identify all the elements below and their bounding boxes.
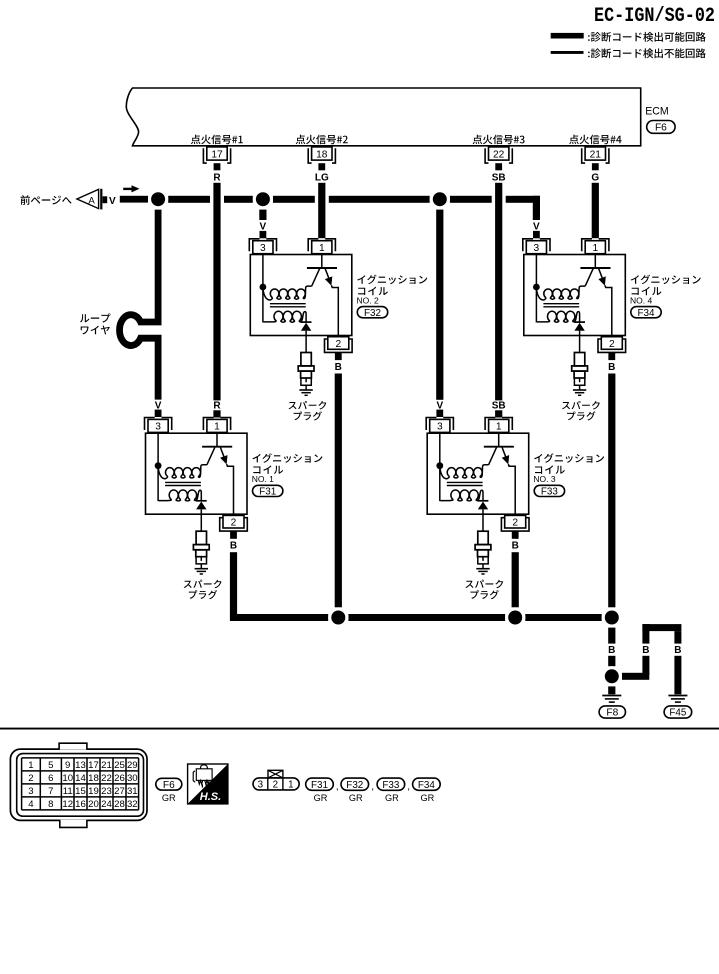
svg-text:F45: F45 bbox=[669, 708, 686, 719]
svg-text:9: 9 bbox=[65, 760, 70, 771]
svg-text:F33: F33 bbox=[541, 487, 559, 498]
svg-text:6: 6 bbox=[48, 773, 53, 784]
wire B: coil2 pin2 to bottom bus bbox=[335, 374, 342, 608]
ground symbol F45 bbox=[668, 696, 687, 703]
svg-text:EC-IGN/SG-02: EC-IGN/SG-02 bbox=[594, 5, 715, 28]
legend: thick-line = diagnosis-code detectable circuit bbox=[551, 32, 706, 42]
svg-text:R: R bbox=[213, 173, 221, 184]
svg-text:F32: F32 bbox=[346, 780, 363, 791]
legend: thin-line = diagnosis-code non-detectable circuit bbox=[551, 48, 706, 58]
flow arrow right bbox=[123, 185, 139, 192]
svg-text:22: 22 bbox=[101, 773, 112, 784]
label 前ページへ (to previous page) bbox=[21, 195, 72, 205]
ECM pin 18 connector bbox=[308, 147, 335, 170]
svg-text:5: 5 bbox=[48, 760, 53, 771]
svg-text:A: A bbox=[88, 196, 95, 207]
svg-text:28: 28 bbox=[114, 799, 125, 810]
ECM U1 box (torn left edge) bbox=[126, 88, 640, 146]
svg-text:25: 25 bbox=[114, 760, 125, 771]
svg-text:1: 1 bbox=[28, 760, 33, 771]
svg-text:12: 12 bbox=[62, 799, 73, 810]
svg-text:19: 19 bbox=[88, 786, 99, 797]
svg-text:23: 23 bbox=[101, 786, 112, 797]
connector F32 oval with GR bbox=[341, 778, 369, 803]
stub after triangle bbox=[103, 196, 108, 203]
branch to F45: horizontal + inverted U bbox=[622, 624, 682, 694]
svg-text:F31: F31 bbox=[311, 780, 329, 791]
svg-text:SB: SB bbox=[492, 173, 506, 184]
H.S. data link logo bbox=[188, 764, 228, 804]
top bus wire segments (V supply) bbox=[168, 196, 540, 203]
svg-text:B: B bbox=[674, 645, 681, 656]
svg-text:24: 24 bbox=[101, 799, 112, 810]
wire R: ECM 17 to coil1 pin1 bbox=[213, 183, 220, 401]
svg-text:8: 8 bbox=[48, 799, 53, 810]
ECM pin label 点火信号#4 bbox=[569, 135, 621, 145]
ground F8 oval bbox=[599, 706, 625, 719]
svg-text:F34: F34 bbox=[637, 308, 655, 319]
node A triangle (page link) bbox=[77, 189, 101, 210]
svg-text:26: 26 bbox=[114, 773, 125, 784]
ECM pin 21 connector bbox=[582, 147, 609, 170]
ECM 32-pin connector face (F6) bbox=[10, 743, 147, 827]
ECM pin label 点火信号#1 bbox=[191, 135, 243, 145]
svg-text:B: B bbox=[608, 645, 615, 656]
svg-text:GR: GR bbox=[421, 793, 435, 803]
svg-text:4: 4 bbox=[28, 799, 34, 810]
svg-text:F32: F32 bbox=[364, 308, 381, 319]
svg-text:32: 32 bbox=[127, 799, 138, 810]
connector F33 oval bbox=[534, 485, 564, 497]
wire bus corner down to coil4 pin3 (V) bbox=[533, 196, 540, 220]
svg-text:NO. 4: NO. 4 bbox=[630, 295, 652, 305]
svg-text:3: 3 bbox=[28, 786, 33, 797]
svg-text:B: B bbox=[642, 645, 649, 656]
svg-text:V: V bbox=[109, 196, 116, 207]
svg-text:2: 2 bbox=[273, 780, 278, 791]
connector F31 oval with GR bbox=[306, 778, 334, 803]
svg-text:,: , bbox=[336, 782, 339, 793]
ECM pin 22 connector bbox=[485, 147, 512, 170]
svg-text:ECM: ECM bbox=[645, 105, 669, 117]
coil 3-pin connector face (3|2|1) bbox=[253, 770, 299, 790]
svg-text:16: 16 bbox=[75, 799, 86, 810]
svg-text:10: 10 bbox=[62, 773, 73, 784]
junction dot at ground branch bbox=[602, 666, 622, 686]
svg-text:3: 3 bbox=[258, 780, 264, 791]
svg-text:,: , bbox=[371, 782, 374, 793]
label ループワイヤ bbox=[80, 313, 110, 334]
svg-text:F6: F6 bbox=[655, 123, 667, 134]
wire bus to coil3 pin3 bbox=[436, 210, 443, 400]
svg-text:H.S.: H.S. bbox=[200, 791, 221, 803]
svg-text:F34: F34 bbox=[418, 780, 436, 791]
svg-text:GR: GR bbox=[385, 793, 399, 803]
ECM pin 17 connector bbox=[203, 147, 230, 170]
wire stub bus to coil2 pin3 (V) bbox=[259, 210, 266, 220]
wire label LG bbox=[315, 173, 329, 184]
svg-text:7: 7 bbox=[48, 786, 53, 797]
wire: V feed into top bus bbox=[120, 196, 148, 203]
wire labels above coil1 pin1 (R) and coil3 pin1 (SB) bbox=[213, 400, 221, 417]
svg-text:20: 20 bbox=[88, 799, 99, 810]
svg-text:11: 11 bbox=[63, 786, 73, 797]
svg-text:NO. 2: NO. 2 bbox=[357, 295, 379, 305]
svg-text:,: , bbox=[407, 782, 410, 793]
svg-text:22: 22 bbox=[493, 150, 505, 161]
svg-text:14: 14 bbox=[75, 773, 86, 784]
ECM pin label 点火信号#3 bbox=[473, 135, 525, 145]
wire stub dot to ground F8 bbox=[608, 686, 615, 694]
connector F34 oval with GR bbox=[413, 778, 441, 803]
loop wire (ループワイヤ) bbox=[120, 210, 159, 400]
junction dots on top bus bbox=[148, 189, 450, 209]
svg-text:F33: F33 bbox=[382, 780, 400, 791]
svg-text:F8: F8 bbox=[606, 708, 618, 719]
svg-text:GR: GR bbox=[349, 793, 363, 803]
svg-text:17: 17 bbox=[211, 150, 223, 161]
ignition coil NO.1 (F31) with transformer, power transistor, diode, spark plug bbox=[145, 400, 323, 599]
wire B: coil1 pin2 to bottom bus bbox=[230, 552, 237, 621]
svg-text:21: 21 bbox=[590, 150, 602, 161]
svg-text:15: 15 bbox=[75, 786, 86, 797]
wire B: coil3 pin2 to bottom bus bbox=[512, 552, 519, 607]
wire label R bbox=[213, 173, 221, 184]
svg-text:17: 17 bbox=[88, 760, 99, 771]
wire B: coil4 pin2 to bottom bus bbox=[608, 374, 615, 608]
wire label G bbox=[591, 173, 599, 184]
svg-text:1: 1 bbox=[288, 780, 293, 791]
connector F34 oval bbox=[631, 307, 661, 319]
ground F45 oval bbox=[664, 706, 692, 719]
ignition coil NO.4 (F34) with transformer, power transistor, diode, spark plug bbox=[523, 222, 701, 421]
connector F6 oval (ECM) bbox=[647, 121, 675, 134]
ECM pin label 点火信号#2 bbox=[296, 135, 348, 145]
connector F33 oval with GR bbox=[377, 778, 405, 803]
svg-text:18: 18 bbox=[88, 773, 99, 784]
wire G: ECM 21 to coil4 pin1 bbox=[592, 183, 599, 238]
section divider line bbox=[0, 728, 719, 730]
svg-text:21: 21 bbox=[101, 760, 112, 771]
ignition coil NO.3 (F33) with transformer, power transistor, diode, spark plug bbox=[426, 400, 604, 599]
svg-text:LG: LG bbox=[315, 173, 329, 184]
bottom ground bus bbox=[230, 614, 602, 621]
svg-text:F31: F31 bbox=[259, 487, 277, 498]
svg-text:NO. 1: NO. 1 bbox=[252, 474, 274, 484]
svg-text:GR: GR bbox=[162, 793, 176, 803]
svg-text:R: R bbox=[213, 400, 221, 411]
ground symbol F8 bbox=[602, 696, 621, 703]
svg-text:F6: F6 bbox=[163, 780, 175, 791]
svg-text:18: 18 bbox=[316, 150, 328, 161]
svg-text:27: 27 bbox=[114, 786, 125, 797]
svg-text:30: 30 bbox=[127, 773, 138, 784]
svg-text:2: 2 bbox=[28, 773, 33, 784]
connector F6 oval with GR bbox=[156, 778, 182, 803]
svg-text:G: G bbox=[591, 173, 599, 184]
junction dots on bottom bus bbox=[328, 607, 622, 627]
svg-text:GR: GR bbox=[314, 793, 328, 803]
connector F31 oval bbox=[253, 485, 283, 497]
wire label SB bbox=[492, 173, 506, 184]
svg-text:29: 29 bbox=[127, 760, 138, 771]
ignition coil NO.2 (F32) with transformer, power transistor, diode, spark plug bbox=[249, 222, 427, 421]
wire LG: ECM 18 to coil2 pin1 bbox=[318, 183, 325, 238]
svg-text:13: 13 bbox=[75, 760, 86, 771]
svg-text:SB: SB bbox=[492, 400, 506, 411]
svg-text:31: 31 bbox=[127, 786, 138, 797]
wire label V (left) bbox=[109, 196, 116, 207]
connector F32 oval bbox=[357, 307, 387, 319]
wire SB: ECM 22 to coil3 pin1 bbox=[495, 183, 502, 401]
svg-text:NO. 3: NO. 3 bbox=[533, 474, 555, 484]
wire B down from bus to ground junction bbox=[608, 628, 615, 667]
